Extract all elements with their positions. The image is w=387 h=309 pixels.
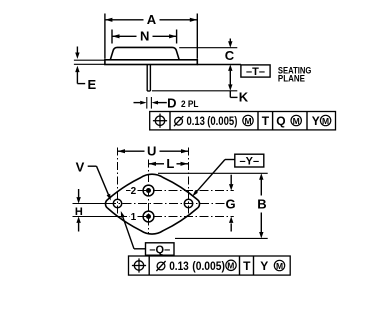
svg-text:2: 2 [131,186,137,197]
pin 2 [143,185,154,196]
feature control frame (bottom) [129,256,291,275]
svg-text:D: D [167,95,176,110]
pin end extension [152,90,237,92]
dimension A line [105,19,144,21]
svg-text:0.13: 0.13 [169,259,189,273]
centerline pin 1 horizontal [73,216,122,218]
dimension L line [149,163,165,165]
svg-text:N: N [140,29,149,44]
svg-text:U: U [147,144,156,159]
dimension A extension line left [104,14,106,59]
dimension N extension tick right [176,30,178,44]
package outline [105,174,199,234]
modifier M circle 3 [320,115,330,125]
dimension B extension lines [158,172,268,174]
svg-text:M: M [276,261,283,271]
pin (side view) [146,65,148,92]
svg-text:–Y–: –Y– [240,155,260,167]
datum -T- box [241,65,270,77]
dimension N line [112,35,137,37]
svg-text:M: M [322,116,329,126]
svg-text:Y: Y [260,259,268,273]
dimension H arrows [78,189,80,197]
svg-text:C: C [225,48,235,63]
svg-text:2 PL: 2 PL [181,99,199,109]
dimension D arrows [134,102,141,104]
svg-text:Y: Y [312,114,320,128]
seating plane extension [197,64,241,66]
svg-text:A: A [147,12,157,27]
dimension E arrows [76,47,78,54]
dimension C arrow [229,39,231,42]
svg-text:M: M [293,116,300,126]
svg-text:G: G [226,197,236,212]
position symbol [134,261,143,270]
flange [105,60,197,65]
modifier M circle 1 [243,115,253,125]
dimension B line [259,173,263,179]
mounting hole right [184,199,192,207]
centerline holes horizontal [73,203,108,205]
dimension D ticks [146,97,148,109]
dimension G arrows [230,175,232,185]
svg-text:T: T [243,259,251,273]
modifier M circle 1 [226,260,236,270]
dimension K arrows [228,65,232,71]
svg-text:V: V [76,160,85,175]
datum -Q- box with leader [146,243,175,255]
dimension A extension line right [196,14,198,59]
diameter symbol [175,117,183,125]
centerline pins vertical [148,160,150,234]
svg-text:0.13: 0.13 [187,114,206,128]
dimension E extension lines [74,59,105,61]
svg-text:T: T [262,114,270,128]
svg-text:M: M [227,261,234,271]
centerline left hole vertical [117,148,119,214]
svg-text:–Q–: –Q– [149,244,170,256]
svg-text:PLANE: PLANE [278,74,305,84]
svg-text:H: H [75,206,83,218]
svg-text:B: B [257,196,266,211]
svg-text:M: M [244,116,251,126]
position symbol [155,116,164,125]
svg-text:1: 1 [131,212,137,223]
svg-text:–T–: –T– [246,66,265,78]
svg-text:E: E [87,77,96,92]
feature control frame (top) [150,112,336,130]
svg-text:(0.005): (0.005) [192,259,225,273]
cap top extension [179,47,237,49]
svg-text:(0.005): (0.005) [207,114,237,128]
dimension N extension tick left [111,30,113,44]
svg-text:K: K [239,89,249,104]
datum -Y- box with leader [235,154,264,167]
modifier M circle 2 [274,260,284,270]
centerline pin 2 horizontal [126,190,131,192]
dimension U line [118,150,145,152]
mounting hole left [113,199,121,207]
svg-text:Q: Q [276,114,285,128]
pin 1 [143,211,154,222]
diameter symbol [157,262,165,270]
modifier M circle 2 [291,115,301,125]
can cap (top hat) [110,47,179,59]
svg-text:L: L [166,156,174,171]
centerline right hole vertical [188,148,190,214]
